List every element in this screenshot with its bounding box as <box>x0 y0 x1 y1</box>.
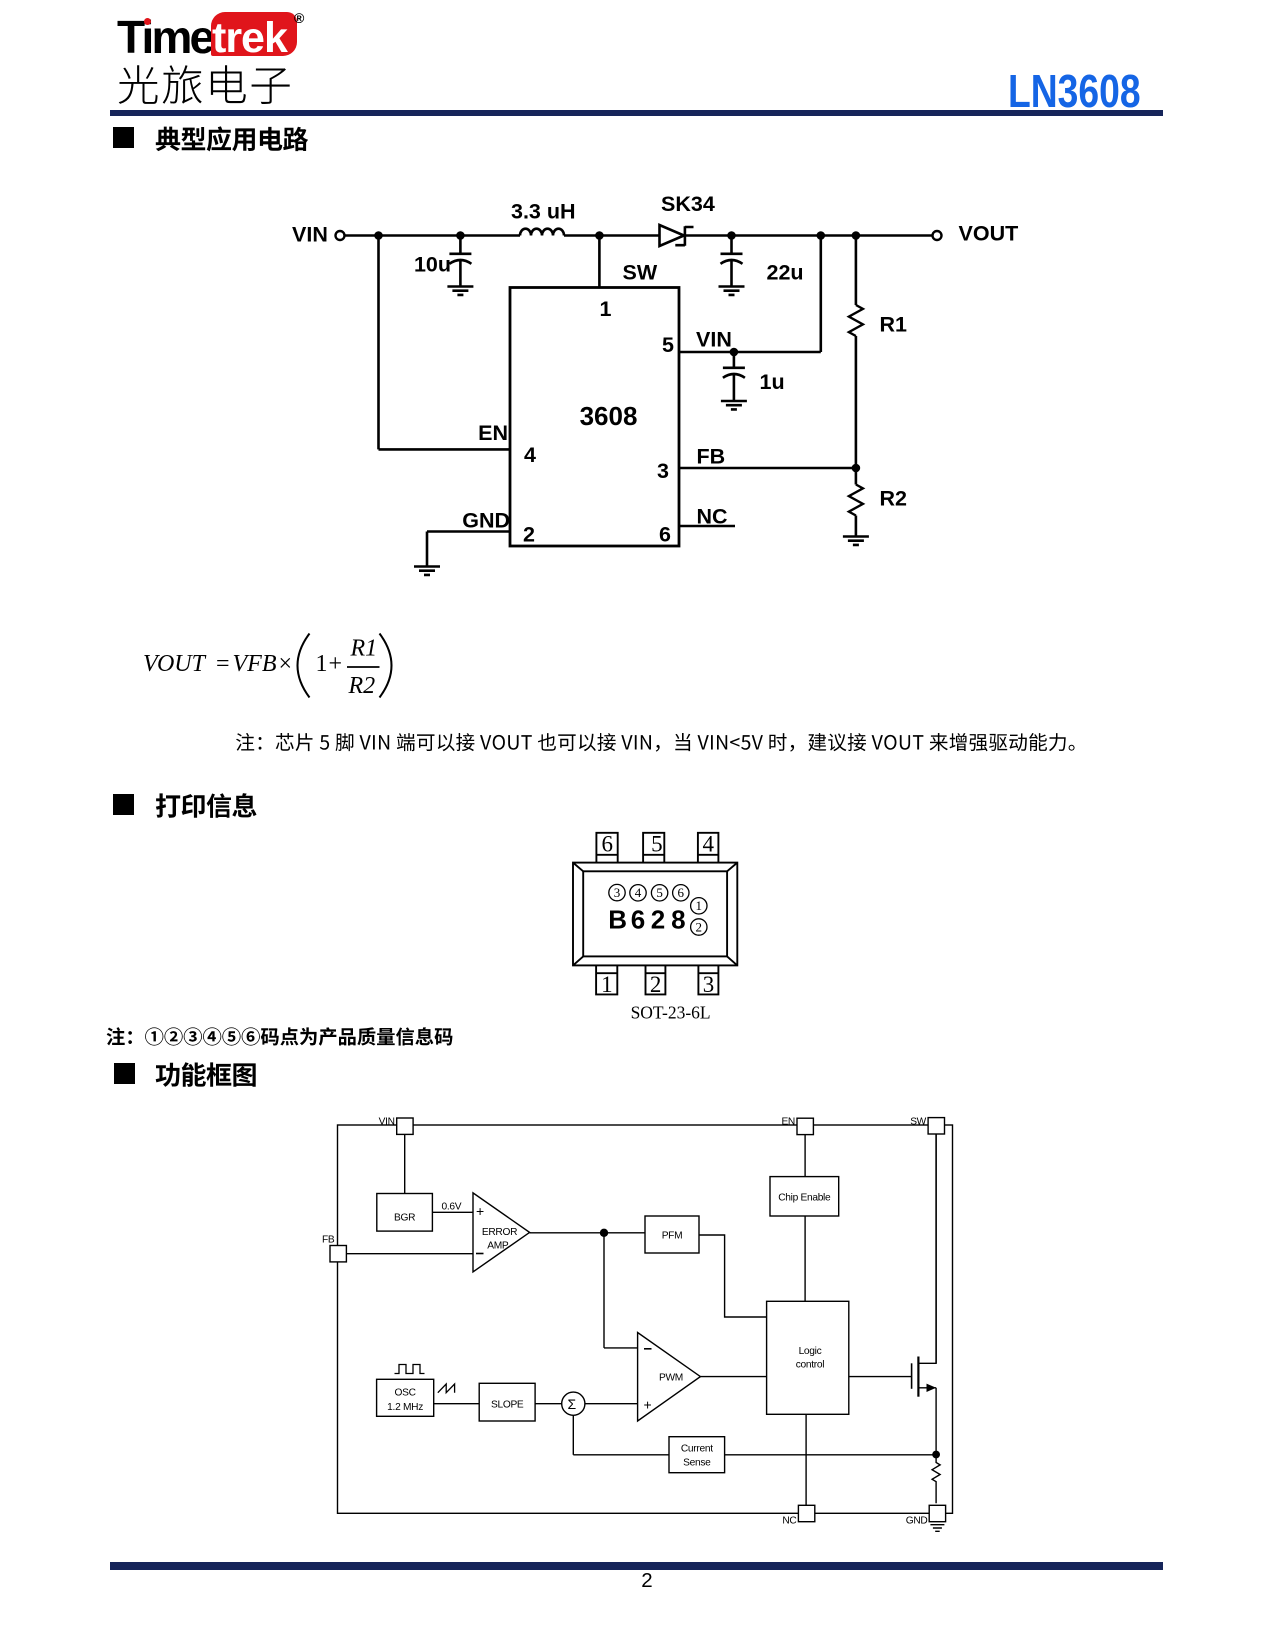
svg-text:ERROR: ERROR <box>482 1227 517 1238</box>
svg-text:BGR: BGR <box>394 1213 415 1224</box>
svg-text:1.2 MHz: 1.2 MHz <box>387 1402 423 1413</box>
svg-text:0.6V: 0.6V <box>442 1202 462 1213</box>
svg-text:PWM: PWM <box>659 1373 683 1384</box>
svg-text:AMP: AMP <box>487 1240 509 1251</box>
svg-text:control: control <box>796 1359 825 1370</box>
svg-text:+: + <box>644 1397 652 1413</box>
svg-text:Σ: Σ <box>568 1396 577 1412</box>
svg-text:VIN: VIN <box>379 1117 395 1128</box>
svg-text:Sense: Sense <box>683 1458 711 1469</box>
svg-text:Chip Enable: Chip Enable <box>778 1192 831 1203</box>
svg-text:GND: GND <box>906 1516 928 1527</box>
svg-text:NC: NC <box>782 1516 796 1527</box>
svg-text:FB: FB <box>322 1235 335 1246</box>
svg-text:PFM: PFM <box>662 1231 683 1242</box>
svg-text:SLOPE: SLOPE <box>491 1400 524 1411</box>
svg-text:OSC: OSC <box>395 1388 416 1399</box>
svg-text:Current: Current <box>681 1444 713 1455</box>
svg-text:SW: SW <box>910 1117 926 1128</box>
svg-text:Logic: Logic <box>799 1346 822 1357</box>
svg-text:EN: EN <box>781 1117 795 1128</box>
svg-text:+: + <box>476 1203 484 1219</box>
